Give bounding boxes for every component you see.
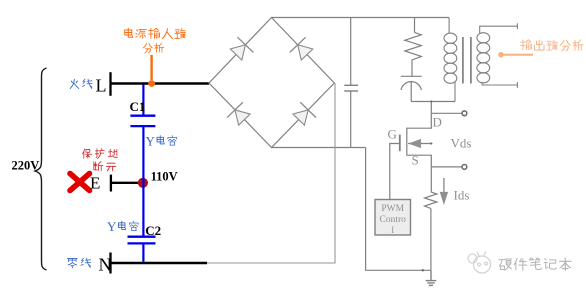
watermark logo (cat doodle) bbox=[468, 252, 491, 274]
diode D1 (top-left of bridge) bbox=[228, 37, 253, 62]
brace for 220V mains bbox=[35, 68, 47, 270]
snubber capacitor (polarized) bbox=[401, 75, 422, 77]
svg-text:Y: Y bbox=[107, 219, 117, 234]
wire: neutral gray return bbox=[207, 83, 335, 263]
junction dots on MOSFET source/drain bbox=[430, 100, 432, 102]
wire: snubber bottom rail to primary bbox=[411, 101, 455, 103]
wire: E to node bbox=[111, 182, 139, 184]
svg-text:l: l bbox=[391, 226, 394, 236]
body line bbox=[408, 143, 431, 145]
capacitor C1 (Y-cap) bbox=[130, 116, 155, 126]
transformer T1 secondary winding bbox=[477, 23, 518, 88]
diode D4 (bottom-right of bridge) bbox=[291, 102, 316, 127]
label: Y电容 (lower) bbox=[107, 219, 138, 234]
X mark (ground broken) bbox=[70, 174, 90, 191]
svg-text:S: S bbox=[412, 153, 419, 168]
wire: N black segment bbox=[111, 262, 208, 264]
wire: bridge top to transformer bbox=[272, 17, 450, 19]
wire: bridge bottom rail bbox=[272, 147, 366, 149]
transformer T1 primary winding bbox=[444, 18, 457, 102]
MOSFET body arrow bbox=[408, 139, 421, 148]
svg-text:G: G bbox=[388, 127, 397, 142]
svg-text:E: E bbox=[90, 174, 100, 193]
transformer core bbox=[463, 37, 471, 84]
gate bar bbox=[399, 135, 401, 152]
svg-text:C1: C1 bbox=[130, 99, 146, 114]
orange callout line bbox=[150, 55, 152, 80]
svg-text:PWM: PWM bbox=[381, 204, 404, 214]
svg-text:Ids: Ids bbox=[454, 188, 470, 203]
label: 电源输入端 分析 (orange callout) bbox=[125, 28, 186, 53]
bridge rectifier diamond bbox=[209, 18, 334, 148]
svg-text:L: L bbox=[96, 76, 107, 96]
junction dot near ground bbox=[422, 269, 424, 271]
orange callout dot on L wire bbox=[148, 80, 155, 87]
svg-text:Y: Y bbox=[146, 134, 156, 149]
watermark text 硬件笔记本 bbox=[499, 258, 571, 270]
svg-text:Vds: Vds bbox=[451, 136, 472, 151]
MOSFET Q1 bbox=[390, 102, 432, 200]
wire: blue Y-cap branch (vertical) bbox=[142, 85, 144, 262]
svg-text:C2: C2 bbox=[145, 223, 161, 238]
node: E junction dot (red) bbox=[138, 178, 148, 188]
filter capacitor plates bbox=[344, 85, 358, 91]
capacitor C2 (Y-cap) bbox=[128, 237, 156, 244]
drain lead bbox=[407, 102, 432, 192]
Ids arrow bbox=[443, 178, 445, 193]
diode D2 (top-right of bridge) bbox=[290, 37, 315, 62]
filter capacitor leads bbox=[350, 18, 352, 86]
sense resistor R2 bbox=[425, 192, 437, 270]
terminal bar E bbox=[110, 175, 112, 192]
wire: primary ground rail bbox=[366, 148, 431, 271]
输出端分析 faded orange callout bbox=[521, 40, 584, 51]
probe line to Vds top circle bbox=[431, 112, 462, 114]
terminal bar N bbox=[109, 253, 111, 274]
svg-text:Contro: Contro bbox=[380, 215, 407, 225]
faded orange dot and line bbox=[498, 52, 504, 58]
label: Y电容 (upper) bbox=[146, 134, 177, 149]
snubber resistor R1 bbox=[401, 18, 455, 102]
label: 火线 (live) blue CJK bbox=[70, 79, 92, 88]
label: 零线 (neutral) blue CJK bbox=[67, 258, 90, 268]
PWM controller U1 bbox=[375, 200, 411, 236]
label: 保护地 断开 red CJK bbox=[82, 149, 117, 171]
svg-text:D: D bbox=[433, 115, 442, 130]
wire: L to bridge left corner bbox=[111, 82, 210, 84]
diode D3 (bottom-left of bridge) bbox=[227, 102, 252, 127]
probe line to Vds bottom circle bbox=[431, 166, 462, 168]
gate lead bbox=[390, 144, 400, 200]
ground bbox=[426, 270, 437, 285]
terminal bar L bbox=[109, 72, 111, 96]
svg-text:110V: 110V bbox=[151, 170, 178, 184]
